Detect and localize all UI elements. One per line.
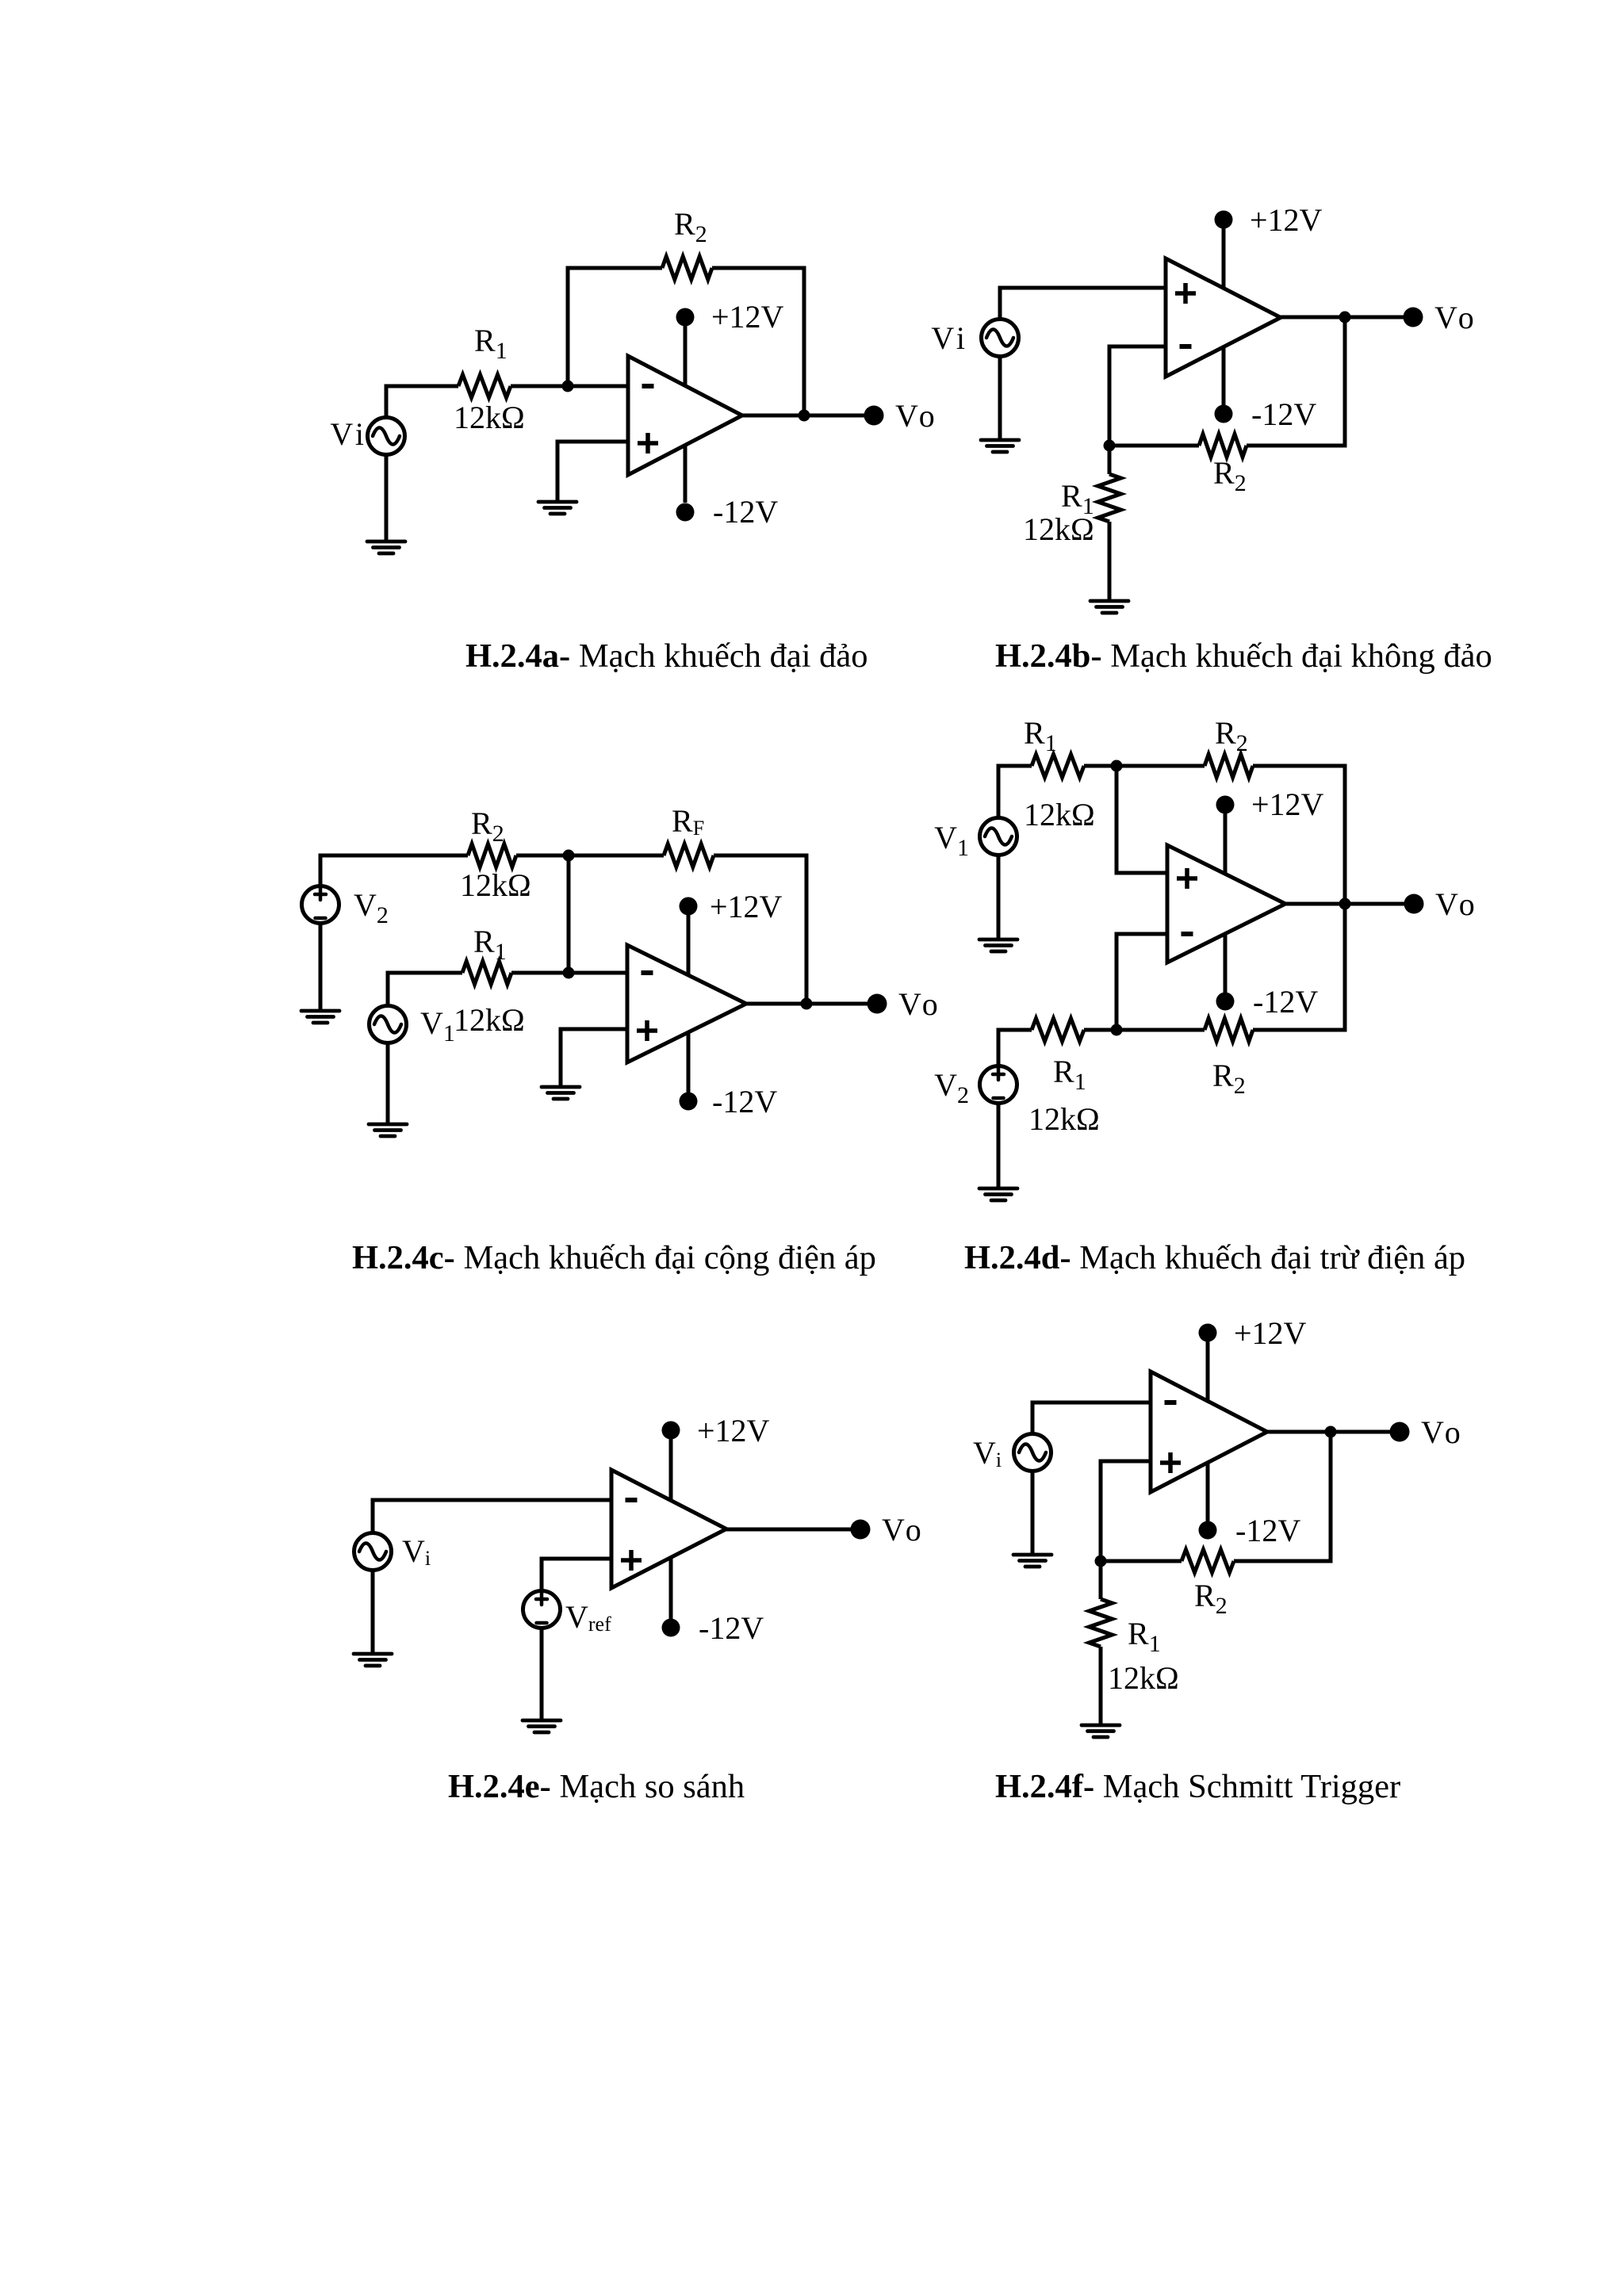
ground under Vi (circuit f)	[1013, 1555, 1051, 1567]
node junction R2/RF (circuit c)	[563, 850, 575, 862]
resistor R2 feedback (circuit b)	[1199, 434, 1247, 457]
ground at non-inverting input (circuit c)	[542, 1087, 580, 1099]
wire non-inverting input to ground (circuit a)	[557, 442, 628, 502]
ground under R1 (circuit f)	[1082, 1725, 1120, 1737]
resistor R1 12k (circuit b)	[1098, 474, 1121, 522]
wire Vi source to ground (circuit e)	[371, 1570, 375, 1654]
svg-text:H.2.4a- Mạch khuếch đại đảo: H.2.4a- Mạch khuếch đại đảo	[465, 637, 868, 675]
wire node to R1 (circuit f)	[1099, 1561, 1103, 1599]
svg-text:Vo: Vo	[1421, 1414, 1465, 1450]
terminal -12V supply (circuit f)	[1199, 1521, 1217, 1540]
terminal +12V supply (circuit f)	[1199, 1324, 1217, 1342]
wire non-inverting input to node (circuit f)	[1101, 1461, 1151, 1561]
resistor R2 feedback top (circuit d)	[1205, 755, 1253, 778]
svg-text:Vo: Vo	[1434, 300, 1479, 335]
ground under Vi (circuit e)	[354, 1654, 392, 1666]
wire V2 source to R2 (circuit c)	[320, 855, 468, 886]
source Vi AC (circuit e)	[354, 1533, 392, 1571]
op-amp U1 (circuit f)	[1151, 1372, 1267, 1492]
wire R2 to summing node and RF (circuit c)	[516, 854, 664, 858]
wire RF to output node (circuit c)	[714, 855, 806, 1004]
resistor R1 12k bottom (circuit d)	[1032, 1019, 1084, 1042]
wire R1 bottom to node and R2 bottom (circuit d)	[1084, 1028, 1205, 1032]
wire Vi source to ground (circuit b)	[998, 356, 1002, 440]
svg-text:H.2.4b- Mạch khuếch đại không: H.2.4b- Mạch khuếch đại không đảo	[995, 637, 1492, 675]
source V2 DC (circuit c)	[302, 886, 339, 924]
wire R2 to node (circuit f)	[1101, 1559, 1182, 1563]
wire feedback down segment (circuit f)	[1234, 1432, 1331, 1561]
svg-text:12kΩ: 12kΩ	[1023, 511, 1094, 547]
ground under V2 (circuit d)	[979, 1188, 1017, 1200]
resistor R1 12k (circuit c)	[462, 962, 511, 985]
terminal Vo (circuit a)	[864, 406, 884, 426]
ground under R1 (circuit b)	[1090, 601, 1128, 613]
terminal -12V supply (circuit e)	[662, 1619, 680, 1637]
wire R1 to ground (circuit f)	[1099, 1647, 1103, 1725]
source Vi AC (circuit b)	[982, 320, 1019, 357]
svg-text:+12V: +12V	[1250, 202, 1323, 238]
resistor R1 12k top (circuit d)	[1032, 755, 1084, 778]
source Vref DC (circuit e)	[523, 1591, 561, 1628]
svg-text:Vo: Vo	[898, 986, 943, 1022]
svg-text:H.2.4c- Mạch khuếch đại cộng đ: H.2.4c- Mạch khuếch đại cộng điện áp	[352, 1239, 876, 1276]
terminal +12V supply (circuit b)	[1215, 211, 1233, 229]
svg-text:H.2.4d- Mạch khuếch đại trừ đi: H.2.4d- Mạch khuếch đại trừ điện áp	[964, 1239, 1465, 1276]
op-amp U1 (circuit c)	[627, 945, 746, 1062]
wire V1 source to ground (circuit c)	[386, 1043, 390, 1124]
terminal -12V supply (circuit d)	[1216, 993, 1235, 1011]
svg-text:H.2.4e- Mạch so sánh: H.2.4e- Mạch so sánh	[448, 1768, 745, 1805]
op-amp U1 (circuit d)	[1167, 845, 1285, 962]
svg-text:+12V: +12V	[1234, 1315, 1307, 1351]
svg-text:12kΩ: 12kΩ	[1024, 797, 1095, 832]
svg-text:+12V: +12V	[710, 889, 783, 924]
wire R2 bottom to output node (circuit d)	[1253, 904, 1345, 1030]
wire +12V supply to op-amp (circuit c)	[687, 915, 691, 980]
wire V1 source to R1 (circuit c)	[388, 973, 462, 1006]
resistor R1 12k (circuit f)	[1090, 1599, 1113, 1647]
wire +12V supply to op-amp (circuit e)	[669, 1439, 673, 1506]
resistor R2 feedback (circuit a)	[662, 257, 712, 280]
wire -12V supply to op-amp (circuit f)	[1206, 1456, 1210, 1521]
wire +12V supply to op-amp (circuit f)	[1206, 1341, 1210, 1407]
terminal +12V supply (circuit e)	[662, 1422, 680, 1440]
wire R1 to op-amp inverting input (circuit a)	[511, 385, 628, 388]
terminal +12V supply (circuit d)	[1216, 796, 1235, 814]
source V2 DC (circuit d)	[980, 1066, 1017, 1104]
svg-text:12kΩ: 12kΩ	[1108, 1660, 1179, 1696]
ground under Vi (circuit a)	[367, 541, 405, 553]
ground under V1 (circuit d)	[979, 939, 1017, 951]
wire V1 source to ground (circuit d)	[997, 855, 1001, 939]
terminal Vo (circuit e)	[851, 1520, 871, 1540]
resistor RF feedback (circuit c)	[664, 844, 714, 867]
node junction R1/R2/non-inverting input (circuit f)	[1095, 1556, 1107, 1567]
node junction output/feedback (circuit d)	[1339, 898, 1351, 910]
resistor R2 12k (circuit c)	[468, 844, 516, 867]
node junction feedback/output (circuit a)	[799, 410, 810, 422]
op-amp U1 (circuit e)	[611, 1470, 726, 1588]
wire op-amp output to Vo terminal (circuit b)	[1281, 316, 1413, 320]
wire non-inverting input to Vref (circuit e)	[542, 1559, 612, 1591]
resistor R1 12k (circuit a)	[458, 375, 511, 398]
source Vi AC (circuit f)	[1014, 1434, 1051, 1471]
terminal -12V supply (circuit c)	[680, 1093, 698, 1111]
ground under Vref (circuit e)	[523, 1720, 561, 1732]
terminal -12V supply (circuit b)	[1215, 405, 1233, 423]
wire -12V supply to op-amp (circuit e)	[669, 1553, 673, 1619]
svg-text:-12V: -12V	[712, 1084, 777, 1119]
node junction R1/R2/inverting input (circuit b)	[1104, 440, 1116, 452]
terminal Vo (circuit c)	[868, 994, 887, 1014]
wire Vi source to inverting input (circuit e)	[373, 1500, 612, 1533]
wire -12V supply to op-amp (circuit d)	[1224, 928, 1228, 993]
wire R1 to inverting input (circuit c)	[511, 971, 627, 975]
node junction output/feedback (circuit f)	[1325, 1426, 1337, 1438]
resistor R2 bottom (circuit d)	[1205, 1019, 1253, 1042]
node junction R1/inverting input (circuit c)	[563, 967, 575, 979]
ground under Vi (circuit b)	[981, 440, 1019, 452]
terminal -12V supply (circuit a)	[676, 503, 695, 522]
wire +12V supply to op-amp (circuit d)	[1224, 813, 1228, 878]
svg-text:+12V: +12V	[711, 299, 784, 335]
wire non-inverting input to ground (circuit c)	[561, 1029, 627, 1087]
svg-text:H.2.4f- Mạch Schmitt Trigger: H.2.4f- Mạch Schmitt Trigger	[995, 1768, 1400, 1805]
node junction R1/R2 bottom (circuit d)	[1111, 1024, 1123, 1036]
terminal +12V supply (circuit c)	[680, 897, 698, 916]
svg-text:+12V: +12V	[1251, 786, 1324, 822]
wire Vi source to R1 input node (circuit a)	[386, 386, 458, 418]
svg-text:12kΩ: 12kΩ	[454, 1002, 525, 1038]
wire feedback down segment (circuit b)	[1247, 317, 1345, 446]
source V1 AC (circuit d)	[980, 818, 1017, 855]
svg-text:Vo: Vo	[895, 398, 940, 434]
wire op-amp output to Vo terminal (circuit a)	[742, 414, 874, 418]
wire feedback right/down segment (circuit a)	[712, 268, 804, 415]
svg-text:-12V: -12V	[713, 494, 778, 530]
resistor R2 feedback (circuit f)	[1182, 1550, 1234, 1573]
wire node to inverting input (circuit d)	[1116, 934, 1167, 1030]
terminal Vo (circuit f)	[1390, 1422, 1410, 1442]
svg-text:Vi: Vi	[330, 416, 368, 452]
wire op-amp output to Vo terminal (circuit e)	[726, 1528, 860, 1532]
ground under V1 (circuit c)	[369, 1124, 407, 1136]
wire Vi source to ground (circuit f)	[1031, 1471, 1035, 1555]
wire op-amp output to Vo terminal (circuit d)	[1285, 902, 1414, 906]
svg-text:Vo: Vo	[882, 1512, 926, 1548]
wire inverting input to node (circuit b)	[1109, 346, 1165, 446]
svg-text:-12V: -12V	[1253, 984, 1318, 1020]
wire V2 source to ground (circuit c)	[319, 923, 323, 1011]
node junction output/feedback (circuit b)	[1339, 312, 1351, 323]
wire R2 top to output node (circuit d)	[1253, 766, 1345, 904]
svg-text:Vo: Vo	[1435, 886, 1480, 922]
svg-text:12kΩ: 12kΩ	[1028, 1101, 1100, 1137]
op-amp U1 (circuit a)	[628, 356, 742, 475]
wire Vi source to ground (circuit a)	[385, 454, 389, 541]
node junction R1/R2/inverting input (circuit a)	[562, 381, 574, 392]
wire V2 source to R1 bottom (circuit d)	[998, 1030, 1032, 1066]
node junction feedback/output (circuit c)	[801, 998, 813, 1010]
wire op-amp output to Vo terminal (circuit f)	[1267, 1430, 1400, 1434]
source Vi AC (circuit a)	[368, 418, 405, 455]
node junction R1/R2 top (circuit d)	[1111, 760, 1123, 772]
wire R1 to ground (circuit b)	[1108, 522, 1112, 601]
svg-text:-12V: -12V	[1251, 396, 1316, 432]
ground at non-inverting input (circuit a)	[538, 502, 576, 514]
wire +12V supply to op-amp (circuit b)	[1222, 228, 1226, 293]
svg-text:+12V: +12V	[697, 1413, 770, 1448]
terminal +12V supply (circuit a)	[676, 308, 695, 327]
terminal Vo (circuit b)	[1404, 308, 1423, 327]
svg-text:-12V: -12V	[1235, 1513, 1300, 1548]
op-amp U1 (circuit b)	[1166, 258, 1281, 377]
ground under V2 (circuit c)	[301, 1011, 339, 1023]
wire Vi source to non-inverting input (circuit b)	[1000, 288, 1165, 320]
wire V1 source to R1 top (circuit d)	[998, 766, 1032, 818]
wire op-amp output to Vo terminal (circuit c)	[746, 1002, 877, 1006]
wire R1 to node and R2 top (circuit d)	[1084, 764, 1205, 768]
svg-text:Vi: Vi	[931, 320, 969, 356]
wire node to R1 (circuit b)	[1108, 446, 1112, 474]
wire node to non-inverting input (circuit d)	[1116, 766, 1167, 873]
wire R2 to node (circuit b)	[1109, 444, 1199, 448]
svg-text:12kΩ: 12kΩ	[460, 867, 531, 903]
source V1 AC (circuit c)	[370, 1006, 407, 1043]
wire feedback left/up segment (circuit a)	[568, 268, 662, 386]
wire -12V supply to op-amp (circuit b)	[1222, 341, 1226, 405]
wire summing node vertical (circuit c)	[567, 855, 571, 973]
svg-text:12kΩ: 12kΩ	[454, 400, 525, 435]
wire -12V supply to op-amp (circuit c)	[687, 1027, 691, 1093]
wire +12V supply to op-amp (circuit a)	[684, 326, 688, 390]
wire V2 source to ground (circuit d)	[997, 1103, 1001, 1188]
wire Vref source to ground (circuit e)	[540, 1628, 544, 1720]
svg-text:-12V: -12V	[699, 1610, 764, 1646]
wire Vi source to inverting input (circuit f)	[1032, 1402, 1151, 1434]
wire -12V supply to op-amp (circuit a)	[684, 441, 688, 503]
terminal Vo (circuit d)	[1404, 894, 1424, 914]
